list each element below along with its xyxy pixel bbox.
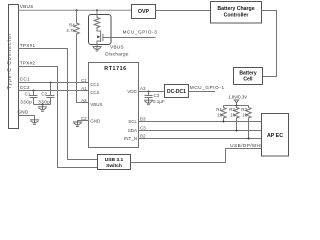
pin A3 VDD	[127, 86, 146, 94]
svg-text:A2: A2	[81, 98, 87, 103]
ground below C3	[144, 100, 153, 105]
junction 1.8V/rail	[236, 105, 238, 107]
svg-text:SDA: SDA	[128, 128, 137, 133]
svg-text:USB 3.1: USB 3.1	[105, 157, 124, 163]
svg-text:USB/DP/MHL: USB/DP/MHL	[230, 143, 263, 148]
svg-text:RT1716: RT1716	[104, 66, 126, 72]
pin C2 GND	[81, 116, 101, 124]
svg-text:C1: C1	[25, 92, 31, 97]
svg-text:Battery: Battery	[239, 70, 256, 76]
wire OVP to charger	[156, 10, 211, 12]
svg-text:AP EC: AP EC	[267, 133, 283, 139]
svg-text:VBUS: VBUS	[20, 4, 34, 9]
junction CC2/C1	[33, 90, 35, 92]
wire INT_N	[139, 138, 262, 140]
svg-text:R1: R1	[216, 107, 222, 112]
svg-text:MCU_GPIO-3: MCU_GPIO-3	[123, 29, 158, 34]
svg-text:CC2: CC2	[90, 90, 99, 95]
svg-text:TPX#1: TPX#1	[20, 43, 36, 48]
svg-text:1k: 1k	[242, 113, 248, 118]
svg-text:C3: C3	[140, 125, 146, 130]
wire DC-DC1 out	[189, 91, 216, 93]
wire CC1	[19, 82, 89, 84]
DC-DC1 block	[165, 85, 189, 98]
wire charger to battery cell	[262, 11, 277, 77]
wire USB/DP/MHL	[131, 149, 262, 163]
junction INT_N/R3	[248, 138, 250, 140]
svg-text:SCL: SCL	[128, 119, 137, 124]
svg-text:Discharge: Discharge	[105, 51, 129, 56]
svg-text:DC-DC1: DC-DC1	[167, 89, 186, 95]
ground at RT1716 GND	[73, 122, 82, 127]
svg-text:A3: A3	[140, 86, 146, 91]
wire VBUS	[19, 9, 132, 11]
resistor R3 1k	[241, 106, 251, 139]
svg-text:1k: 1k	[217, 113, 223, 118]
svg-text:Controller: Controller	[224, 12, 249, 18]
resistor R1 1k	[216, 106, 226, 122]
svg-text:VBUS: VBUS	[90, 102, 102, 107]
ground below discharge	[92, 45, 101, 51]
USB 3.1 Switch block	[98, 155, 131, 170]
VBUS Discharge block U2	[89, 10, 112, 44]
svg-text:CC2: CC2	[20, 85, 30, 90]
svg-text:TPX#2: TPX#2	[20, 61, 36, 66]
wire cap commons	[34, 104, 51, 106]
svg-text:1k: 1k	[230, 113, 236, 118]
svg-text:GND: GND	[17, 109, 28, 114]
wire SCL	[139, 121, 262, 123]
junction SCL/R1	[223, 121, 225, 123]
wire gate MCU_GPIO-3	[111, 37, 156, 39]
svg-text:CC1: CC1	[20, 77, 30, 82]
svg-text:4.7k: 4.7k	[66, 28, 75, 33]
junction SDA/R2	[236, 130, 238, 132]
wire TPX#1	[19, 49, 98, 160]
Battery Cell block	[234, 68, 263, 85]
OVP block	[132, 5, 156, 19]
pin B2 INT_N	[124, 134, 146, 142]
svg-text:330p: 330p	[20, 99, 32, 104]
wire GND stub	[78, 121, 89, 122]
junction CC1/C2	[50, 82, 52, 84]
RT1716 U1	[89, 63, 139, 148]
svg-text:R2: R2	[229, 107, 235, 112]
svg-text:Type-C Connector: Type-C Connector	[7, 33, 13, 90]
pin C3 SDA	[128, 125, 147, 133]
svg-text:OVP: OVP	[138, 9, 150, 15]
AP EC block	[262, 114, 289, 157]
pin A1 CC2	[81, 86, 100, 95]
junction VBUS/discharge	[96, 9, 98, 11]
resistor R2 1k	[229, 106, 239, 131]
pin B3 SCL	[128, 117, 146, 125]
wire CC2	[19, 90, 89, 92]
svg-text:Switch: Switch	[106, 163, 122, 169]
svg-text:CC1: CC1	[90, 82, 99, 87]
svg-text:R3: R3	[241, 107, 247, 112]
junction VDD/C3	[148, 91, 150, 93]
svg-text:Cell: Cell	[243, 77, 253, 83]
wire TPX#2	[19, 67, 98, 168]
svg-text:VBUS: VBUS	[110, 44, 124, 49]
svg-text:330p: 330p	[38, 99, 50, 104]
power symbol 1.8V	[234, 100, 238, 103]
pin A2 VBUS	[81, 98, 102, 107]
svg-text:A1: A1	[81, 86, 87, 91]
capacitor C1 330p	[20, 91, 37, 105]
svg-text:B2: B2	[140, 134, 146, 139]
pin C1 CC1	[81, 78, 100, 87]
svg-text:Battery Charge: Battery Charge	[217, 6, 254, 12]
wire 1.8V rail	[224, 103, 249, 106]
wire SDA	[139, 130, 262, 132]
junction caps/ground	[42, 104, 44, 106]
svg-text:INT_N: INT_N	[124, 136, 137, 141]
svg-text:C1: C1	[81, 78, 87, 83]
svg-text:MCU_GPIO-1: MCU_GPIO-1	[190, 85, 225, 90]
wire VDD	[139, 91, 165, 93]
wire GND	[19, 116, 35, 120]
ground below C1 C2	[38, 105, 47, 112]
capacitor C3 0.1uF	[145, 92, 165, 104]
svg-text:1.8V/0.3V: 1.8V/0.3V	[228, 95, 247, 100]
svg-text:VDD: VDD	[127, 89, 137, 94]
svg-text:B3: B3	[140, 117, 146, 122]
Type-C Connector J1	[7, 5, 18, 129]
resistor R4	[66, 10, 88, 102]
svg-text:0.1µF: 0.1µF	[153, 99, 165, 104]
svg-text:C2: C2	[41, 92, 47, 97]
label VBUS Discharge	[105, 44, 129, 56]
svg-text:GND: GND	[90, 119, 101, 124]
ground at connector	[30, 120, 39, 125]
svg-text:C3: C3	[154, 93, 160, 98]
Battery Charge Controller block	[211, 2, 262, 24]
capacitor C2 330p	[38, 83, 54, 105]
junction VBUS/R4	[76, 9, 78, 11]
